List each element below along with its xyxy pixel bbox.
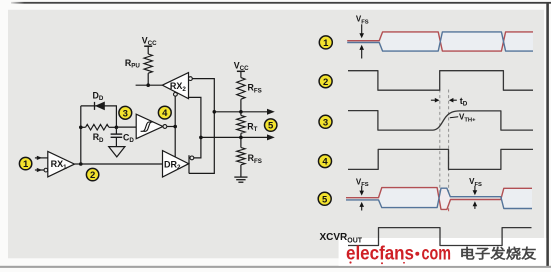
bottom separator line [0, 266, 551, 268]
junction dot bus B left [199, 136, 203, 140]
svg-text:5: 5 [268, 121, 274, 132]
junction dot busA resistor [239, 110, 243, 114]
wire RD right stub to junction [109, 126, 117, 128]
junction dot RPU node [146, 83, 150, 87]
VTH+ annotation [450, 113, 476, 124]
svg-text:1: 1 [323, 38, 329, 49]
waveform row2 [348, 71, 533, 91]
wire RX2 corner to bus B vertical [189, 97, 201, 157]
node 2 [86, 168, 98, 181]
power VCC right [234, 60, 249, 77]
resistor RFS bottom [237, 148, 245, 165]
wire junction to schmitt input [116, 126, 136, 128]
svg-text:4: 4 [322, 157, 328, 168]
wire node4 down to DR2 enable [174, 127, 176, 157]
waveform row4 [348, 149, 533, 169]
junction dot node 4 [173, 125, 177, 129]
diode DD [95, 102, 105, 111]
row5 eye fill A [380, 188, 439, 208]
junction dot left of RD [79, 126, 83, 130]
wire RFS bottom to ground [240, 165, 242, 177]
waveform row3 with RC rise [348, 111, 533, 131]
schmitt trigger U1 [136, 114, 163, 139]
RX2 inverting input bubble top [189, 77, 193, 81]
svg-text:5: 5 [322, 194, 328, 205]
junction dot bus A left [213, 110, 217, 114]
wire diode DD top branch [81, 106, 117, 127]
svg-text:com: com [422, 244, 452, 265]
signal ground below CD [109, 147, 125, 157]
waveform row5 blue trace [346, 188, 532, 208]
svg-text:1: 1 [23, 159, 29, 170]
wire RT to busB [240, 133, 242, 137]
svg-text:2: 2 [90, 170, 95, 181]
wire RX2 bubble to bus A [189, 79, 214, 174]
right border line [546, 3, 549, 268]
DR2 inverted output bubble [190, 156, 194, 160]
svg-text:elecfans: elecfans [346, 244, 414, 265]
waveform XCVR out [348, 228, 532, 246]
row1 eye fill B [440, 32, 503, 51]
row1 eye fill C [504, 32, 534, 51]
resistor RPU [144, 54, 152, 73]
wire RFS to busA [240, 99, 242, 112]
row5 eye fill B [502, 188, 532, 208]
capacitor CD [111, 127, 123, 146]
VFS annotation row5 left [356, 178, 369, 211]
node 1 [19, 157, 31, 170]
node circle 4 timing [319, 155, 332, 168]
DR2 output bar [188, 155, 190, 173]
junction dot busB resistor [239, 136, 243, 140]
op-amp RX2 [162, 73, 188, 99]
svg-text:4: 4 [162, 108, 168, 119]
wire busB to RFS bottom [240, 137, 242, 147]
wire RX1 input A with arrowhead [35, 156, 48, 160]
driver DR2 [163, 151, 189, 177]
node 4 [158, 106, 171, 119]
node junction dot at RX1 output [79, 162, 83, 166]
watermark elecfans.com [346, 244, 451, 265]
RX2 lower input bubble [174, 92, 178, 96]
wire node2 to DR2 input [81, 163, 163, 165]
dashed line t2 [448, 90, 450, 196]
svg-text:3: 3 [123, 108, 128, 119]
node 3 [119, 106, 132, 119]
node circle 5 timing [318, 192, 331, 205]
node circle 2 timing [319, 75, 332, 88]
svg-text:3: 3 [323, 117, 328, 128]
wire node4 up to RX2 bubble [174, 96, 176, 126]
wire RX1 input B with arrowhead and bubble [35, 168, 48, 172]
bus line A wire with arrow [214, 109, 274, 115]
power VCC left [142, 35, 157, 54]
dashed line t2 red lower part [448, 197, 450, 212]
wire schmitt output to node 4 [167, 126, 175, 128]
schmitt output bubble [163, 125, 167, 129]
resistor RT [237, 115, 245, 133]
watermark strip [339, 238, 546, 266]
earth ground [234, 177, 247, 182]
op-amp RX1 [48, 151, 75, 177]
waveform row5 red trace [346, 188, 532, 210]
wire RX1 output to node 2 [75, 163, 81, 165]
VFS annotation row1 [356, 15, 369, 59]
waveform row1 blue trace [347, 32, 533, 51]
resistor RD [86, 124, 109, 130]
svg-text:2: 2 [323, 77, 328, 88]
resistor RFS top [237, 78, 245, 100]
row1 eye fill A [381, 32, 440, 51]
wire RPU to node [147, 73, 149, 85]
wire RD left stub [81, 126, 86, 128]
node circle 3 timing [319, 115, 332, 128]
dashed line t1 [439, 90, 441, 196]
tD annotation [431, 96, 468, 108]
waveform row1 red trace [347, 32, 533, 51]
wire RX2 output stub [136, 84, 163, 86]
node circle 1 timing [319, 36, 332, 49]
wire busA to RT [240, 112, 242, 116]
bus line B wire with arrow [201, 134, 275, 140]
svg-text:电子发烧友: 电子发烧友 [460, 245, 538, 261]
row5 glitch fill [439, 188, 450, 209]
node 5 schematic [265, 119, 277, 132]
junction dot RD/CD/DD [115, 126, 119, 130]
wire left vertical branch up to DD/RD [80, 106, 82, 164]
VFS annotation row5 right [469, 177, 482, 209]
